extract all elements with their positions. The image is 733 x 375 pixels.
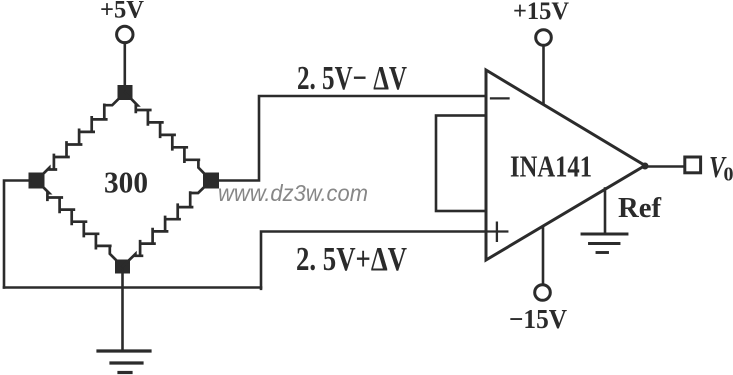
resistor R2 (bridge arm top-right) [125,93,211,181]
terminal +5V [117,26,133,42]
pin Ref wire [604,189,607,233]
node A (bridge top junction) [118,85,133,100]
svg-text:+5V: +5V [100,0,144,24]
node C (bridge right junction) [203,173,219,189]
svg-text:2. 5V+ΔV: 2. 5V+ΔV [296,241,407,278]
svg-text:−15V: −15V [509,304,567,334]
resistor R3 (bridge arm bottom-left) [37,181,123,267]
terminal +15V [536,30,552,46]
svg-text:+15V: +15V [513,0,569,25]
svg-text:2. 5V− ΔV: 2. 5V− ΔV [297,60,407,97]
wire bridge bottom to ground [121,270,124,351]
wire output [645,165,684,168]
wire +15V supply [542,45,545,104]
wire bridge right node to minus input [217,96,485,181]
wire bottom rail [4,286,261,289]
node D (bridge bottom junction) [115,260,130,274]
svg-text:0: 0 [724,164,733,186]
resistor R4 (bridge arm bottom-right) [123,181,212,267]
resistor R1 (bridge arm top-left) [37,93,126,181]
wire -15V supply [542,228,545,284]
op-amp plus input sign [488,223,507,241]
op-amp U1 INA141 triangle [486,70,645,260]
svg-text:www.dz3w.com: www.dz3w.com [218,180,368,206]
svg-text:Ref: Ref [618,192,661,224]
op-amp minus input sign [491,97,509,99]
wire bridge left node to left rail [4,181,30,288]
gain-set loop (pins shorted) [436,116,486,212]
terminal Vo (square pad) [685,157,701,173]
ground (bridge) [98,351,150,373]
wire rail up to plus input [261,232,485,289]
ground (Ref) [582,234,627,253]
node output junction dot [642,163,649,170]
terminal -15V [535,285,551,301]
node B (bridge left junction) [29,173,45,189]
wire +5V to bridge top [124,43,127,89]
svg-text:INA141: INA141 [510,149,592,184]
svg-text:300: 300 [104,164,148,199]
